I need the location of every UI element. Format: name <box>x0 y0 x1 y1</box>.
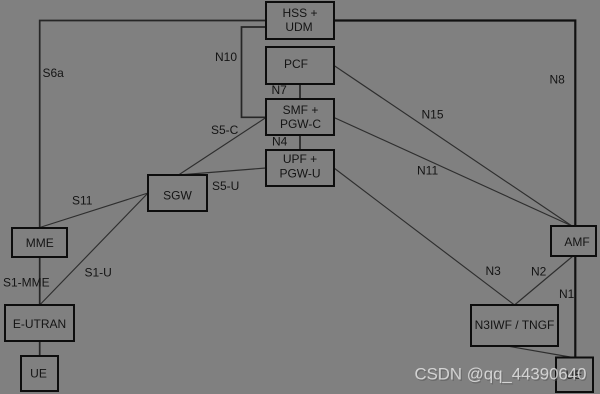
svg-text:UDM: UDM <box>285 20 312 34</box>
wire N11 (SMF to AMF) <box>334 118 572 227</box>
wire N10 (HSS+UDM left to SMF left) <box>242 27 267 117</box>
svg-text:N11: N11 <box>417 164 438 178</box>
wire S5-U (SGW to UPF) <box>179 168 267 175</box>
wire S1-MME (MME to E-UTRAN) <box>39 257 41 305</box>
svg-text:N1: N1 <box>559 287 575 301</box>
wire S5-C (SGW to SMF) <box>179 118 267 176</box>
svg-text:SMF +: SMF + <box>283 103 319 117</box>
box AMF <box>551 226 596 256</box>
wire N3IWF to UE right <box>507 346 573 358</box>
svg-text:MME: MME <box>26 236 54 250</box>
svg-text:HSS +: HSS + <box>282 6 317 20</box>
svg-text:SGW: SGW <box>163 189 192 203</box>
wire E-UTRAN to UE <box>39 341 41 356</box>
wire S6a (HSS+UDM left to MME top) <box>40 21 266 228</box>
svg-text:S5-U: S5-U <box>212 179 239 193</box>
wire N3 (UPF to N3IWF) <box>334 168 515 305</box>
svg-text:S1-MME: S1-MME <box>3 276 50 290</box>
svg-text:UE: UE <box>30 367 47 381</box>
wire N4 (SMF to UPF) <box>299 135 301 150</box>
svg-text:N15: N15 <box>422 108 444 122</box>
box UE (right) <box>556 358 593 393</box>
box PCF <box>266 47 334 84</box>
wire N8 (HSS+UDM right to AMF top) <box>334 21 575 227</box>
box N3IWF / TNGF <box>471 305 558 346</box>
wire S11 (MME to SGW) <box>40 193 148 228</box>
box UE (left) <box>21 356 58 391</box>
svg-text:N8: N8 <box>550 73 566 87</box>
svg-text:S1-U: S1-U <box>85 266 112 280</box>
wire N7 (PCF to SMF) <box>299 84 301 99</box>
svg-text:N2: N2 <box>531 265 547 279</box>
svg-text:S11: S11 <box>72 194 93 208</box>
svg-text:N3IWF / TNGF: N3IWF / TNGF <box>475 318 555 332</box>
box MME <box>12 228 67 257</box>
svg-text:AMF: AMF <box>564 235 589 249</box>
box SGW <box>148 175 207 211</box>
svg-text:N3: N3 <box>486 264 502 278</box>
box E-UTRAN <box>5 305 74 341</box>
box HSS + UDM <box>266 2 334 39</box>
wire N15 (PCF to AMF) <box>334 66 572 227</box>
box UPF + PGW-U <box>266 150 334 186</box>
svg-text:N10: N10 <box>215 50 237 64</box>
svg-text:E-UTRAN: E-UTRAN <box>13 317 66 331</box>
box SMF + PGW-C <box>266 99 334 135</box>
svg-text:PGW-U: PGW-U <box>279 167 320 181</box>
wire N2 (AMF to N3IWF) <box>515 256 574 305</box>
watermark CSDN <box>415 365 588 386</box>
svg-text:S6a: S6a <box>43 66 65 80</box>
wire S1-U (E-UTRAN to SGW) <box>40 193 148 305</box>
svg-text:PGW-C: PGW-C <box>280 117 321 131</box>
svg-text:CSDN @qq_44390640: CSDN @qq_44390640 <box>415 365 587 384</box>
svg-text:N4: N4 <box>272 135 288 149</box>
svg-text:N7: N7 <box>272 83 288 97</box>
svg-text:S5-C: S5-C <box>211 123 239 137</box>
svg-text:UPF +: UPF + <box>283 152 317 166</box>
wire N1 (AMF to UE right) <box>574 256 576 358</box>
svg-text:PCF: PCF <box>284 57 308 71</box>
